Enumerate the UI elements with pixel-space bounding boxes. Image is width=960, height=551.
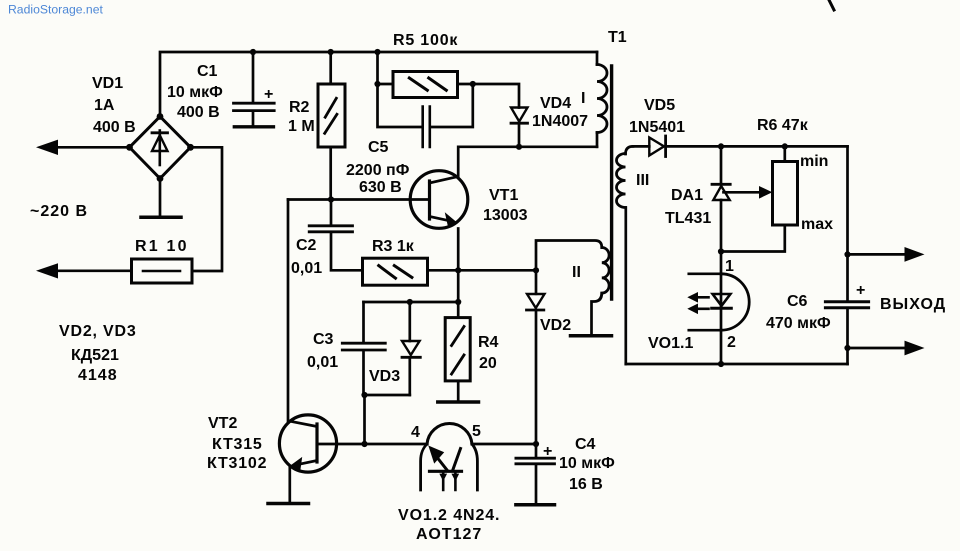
wire AC input upper [56,146,130,149]
resistor R1 [132,259,193,283]
svg-text:400 В: 400 В [93,119,136,136]
svg-text:10 мкФ: 10 мкФ [167,84,223,101]
svg-text:1 М: 1 М [288,118,315,135]
svg-text:0,01: 0,01 [307,354,338,371]
optocoupler VO1.2 [427,424,472,444]
potentiometer R6 [773,162,798,226]
svg-text:1: 1 [725,258,734,275]
svg-text:5: 5 [472,423,481,440]
wire secondary bottom rail [626,363,848,366]
wire collector line [458,147,597,177]
svg-text:+: + [264,86,273,103]
svg-text:C2: C2 [296,237,317,254]
svg-text:1N5401: 1N5401 [629,119,685,136]
svg-text:~220 В: ~220 В [30,203,88,220]
ground winding II [571,334,612,338]
svg-text:I: I [581,90,585,107]
svg-text:10 мкФ: 10 мкФ [559,455,615,472]
ground R4 [438,400,479,404]
node R5 bus junction [374,49,380,55]
wire output plus arrow [848,253,907,256]
svg-text:ВЫХОД: ВЫХОД [880,296,946,313]
ground VT2 [268,502,309,506]
svg-text:1N4007: 1N4007 [532,113,588,130]
svg-text:КТ3102: КТ3102 [207,455,267,472]
svg-text:Т1: Т1 [608,29,627,46]
transformer T1 winding II [602,248,609,294]
wire winding II top [536,241,602,271]
svg-text:16 В: 16 В [569,476,603,493]
svg-text:2: 2 [727,334,736,351]
diode VD5 [633,145,649,148]
wire AC input lower [56,269,132,272]
svg-text:III: III [636,172,649,189]
svg-text:VD2, VD3: VD2, VD3 [59,323,137,340]
svg-text:КТ315: КТ315 [212,436,263,453]
capacitor C4 [535,444,538,457]
wire VT1 base rail [288,198,430,201]
wire top bus [160,52,597,117]
svg-text:VD3: VD3 [369,368,400,385]
svg-text:DA1: DA1 [671,187,703,204]
svg-text:VO1.2 4N24.: VO1.2 4N24. [398,507,500,524]
capacitor C5 [378,52,473,127]
wire emitter to R4 node [457,270,460,302]
wire secondary top rail [666,145,848,148]
svg-text:RadioStorage.net: RadioStorage.net [8,3,103,17]
svg-text:C4: C4 [575,436,596,453]
svg-text:400 В: 400 В [177,104,220,121]
wire winding I chord [596,52,599,147]
svg-text:470 мкФ: 470 мкФ [766,315,831,332]
svg-text:+: + [543,443,552,460]
diode VD4 [473,84,519,108]
wire opto pin5 to C4 node [472,443,536,446]
svg-text:VD5: VD5 [644,97,675,114]
wire C3 top rail [364,301,459,304]
ground C4 [516,503,555,507]
svg-text:VD4: VD4 [540,95,571,112]
svg-text:C3: C3 [313,331,334,348]
wire VT2 base rail [317,443,427,446]
wire to VT2 base [363,395,366,444]
node C1 top junction [250,49,256,55]
wire left vertical to VT2 collector [287,200,290,422]
svg-text:VD2: VD2 [540,317,571,334]
svg-text:0,01: 0,01 [291,260,322,277]
resistor R3 [363,258,428,285]
svg-text:R1 10: R1 10 [135,238,189,255]
svg-text:min: min [800,153,828,170]
svg-text:C6: C6 [787,293,808,310]
capacitor C6 [825,300,868,303]
svg-text:VO1.1: VO1.1 [648,335,693,352]
capacitor C1 [252,52,255,102]
shunt regulator DA1 TL431 [720,146,723,184]
svg-text:C1: C1 [197,63,218,80]
transformer T1 winding III [626,146,634,154]
diode VD2 [535,270,538,294]
wire C3 VD3 bottom rail [364,394,410,397]
capacitor C3 [362,302,365,342]
svg-text:TL431: TL431 [665,210,711,227]
wire bridge right vertex to R1 [191,147,223,271]
svg-text:VT1: VT1 [489,187,518,204]
svg-text:C5: C5 [368,139,389,156]
optocoupler VO1.1 [689,274,721,330]
svg-text:R5 100к: R5 100к [393,32,458,49]
wire output right rail [846,146,849,364]
svg-text:630 В: 630 В [359,179,402,196]
transistor VT2 [279,415,336,472]
svg-text:R6 47к: R6 47к [757,117,809,134]
svg-text:R2: R2 [289,99,310,116]
resistor R4 [457,302,460,318]
svg-text:VT2: VT2 [208,415,237,432]
svg-text:4148: 4148 [78,367,118,384]
svg-text:4: 4 [411,424,420,441]
svg-text:КД521: КД521 [71,347,119,364]
ground bridge common [159,179,162,216]
svg-text:1А: 1А [94,97,115,114]
svg-text:2200 пФ: 2200 пФ [346,162,410,179]
node R2 top junction [328,49,334,55]
resistor R5 [378,83,473,86]
transformer T1 winding I [597,65,607,133]
capacitor C2 [330,200,333,225]
diode bridge VD1 [130,117,191,179]
stray mark top right [829,0,834,10]
svg-text:13003: 13003 [483,207,528,224]
svg-text:max: max [801,216,833,233]
diode VD3 [408,302,411,341]
transformer T1 core [610,66,613,299]
svg-text:АОТ127: АОТ127 [416,526,482,543]
wire output minus arrow [848,347,907,350]
transistor VT1 [410,171,468,229]
ground C1 [234,125,273,128]
resistor R2 [329,52,332,200]
svg-text:20: 20 [479,355,497,372]
svg-text:II: II [572,264,581,281]
svg-text:+: + [856,282,865,299]
svg-text:R3 1к: R3 1к [372,238,415,255]
svg-text:R4: R4 [478,334,499,351]
svg-text:VD1: VD1 [92,75,123,92]
wire emitter rail [458,269,536,272]
